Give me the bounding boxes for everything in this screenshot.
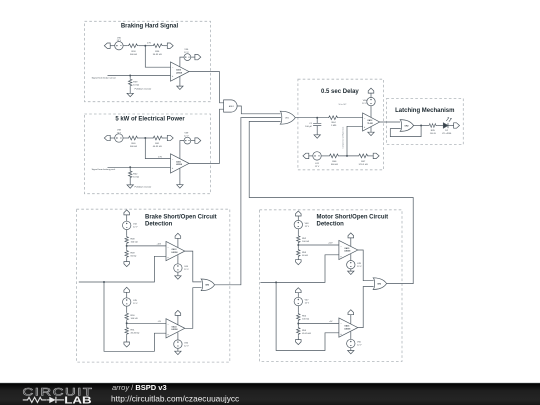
svg-text:+: +: [172, 167, 174, 170]
wire: [369, 155, 373, 157]
svg-text:R49: R49: [131, 253, 136, 255]
wire sensor line: [108, 75, 171, 77]
svg-text:V49: V49: [357, 263, 362, 265]
svg-text:AND1: AND1: [229, 105, 234, 108]
op-amp power stub: [177, 315, 179, 324]
svg-text:Pulldown resistor: Pulldown resistor: [135, 88, 152, 91]
op-amp neg rail stub: [350, 254, 352, 260]
wire: [448, 125, 454, 127]
resistor R47: [358, 154, 370, 158]
op-amp power stub: [180, 57, 184, 67]
logo diode: [49, 397, 55, 403]
op-amp power stub: [180, 141, 184, 159]
resistor R51: [125, 327, 128, 336]
wire: [297, 257, 299, 260]
svg-text:50 to 94T: 50 to 94T: [339, 103, 348, 106]
svg-text:60 kΩ: 60 kΩ: [131, 256, 137, 258]
svg-text:12 V: 12 V: [362, 103, 367, 105]
junction divider lower: [297, 323, 299, 325]
wire: [126, 335, 128, 342]
wire: [126, 244, 128, 249]
svg-text:LM358: LM358: [344, 251, 350, 253]
wire brake OR to OR1 input2: [241, 117, 281, 119]
svg-text:V50: V50: [357, 342, 362, 344]
wire: [321, 155, 328, 157]
ground: [175, 276, 181, 279]
svg-text:V44: V44: [184, 266, 189, 268]
svg-text:OA16: OA16: [344, 325, 349, 328]
svg-text:V42: V42: [133, 224, 138, 226]
wire: [110, 45, 115, 47]
dashed section boxes: [77, 21, 464, 362]
svg-text:arroy / BSPD v3: arroy / BSPD v3: [112, 383, 167, 392]
svg-text:LM358: LM358: [344, 328, 350, 330]
voltage source V47: [294, 297, 302, 305]
wire: [297, 335, 299, 339]
op-amp neg rail stub: [350, 332, 352, 340]
svg-text:12 V: 12 V: [305, 226, 310, 228]
junction feedback: [420, 125, 422, 127]
or gate OR5: [201, 279, 214, 291]
flag right V+: [195, 138, 201, 143]
op-amp neg rail stub: [177, 255, 179, 264]
voltage source V40: [367, 97, 375, 105]
flag down: [296, 260, 302, 265]
ground: [127, 185, 133, 188]
svg-text:LTL-4266: LTL-4266: [442, 133, 452, 135]
svg-text:Latching Mechanism: Latching Mechanism: [395, 108, 454, 114]
svg-text:V48: V48: [305, 223, 310, 225]
svg-text:R45: R45: [431, 130, 436, 132]
wire: [126, 292, 128, 298]
wire: [340, 155, 358, 157]
svg-text:V38: V38: [117, 130, 122, 132]
flag right V+: [195, 54, 201, 59]
svg-text:12 V: 12 V: [184, 269, 189, 271]
svg-text:12 V: 12 V: [133, 227, 138, 229]
flag right (node): [167, 43, 173, 48]
resistor R53: [297, 249, 300, 258]
svg-text:12 V: 12 V: [184, 52, 189, 54]
svg-text:12 V: 12 V: [133, 303, 138, 305]
svg-text:−: −: [167, 323, 169, 326]
svg-text:R44: R44: [332, 122, 337, 124]
svg-text:−: −: [340, 245, 342, 248]
svg-text:100 kΩ: 100 kΩ: [302, 241, 309, 243]
or gate OR1: [280, 111, 295, 124]
wire output: [414, 125, 429, 127]
svg-text:100 µF: 100 µF: [305, 126, 313, 128]
svg-text:R46: R46: [332, 161, 337, 163]
junction divider: [144, 137, 146, 139]
resistor R41: [152, 136, 164, 140]
op-amp ground stub: [179, 168, 181, 185]
svg-text:V35: V35: [117, 37, 122, 39]
flag up V+: [348, 233, 354, 238]
svg-text:45.45 kΩ: 45.45 kΩ: [131, 333, 140, 335]
svg-text:5 kW of Electrical Power: 5 kW of Electrical Power: [115, 116, 185, 122]
voltage source V42: [123, 221, 131, 229]
svg-text:100 kΩ: 100 kΩ: [131, 318, 138, 320]
wire: [191, 56, 195, 58]
or gate OR6: [373, 278, 386, 290]
wire: [123, 45, 127, 47]
wire: [297, 216, 299, 220]
svg-text:12 V: 12 V: [305, 303, 310, 305]
op-amp OA15: [339, 240, 358, 259]
wire: [191, 140, 195, 142]
ground: [175, 351, 181, 354]
wire: [297, 229, 299, 235]
svg-text:560 kΩ: 560 kΩ: [130, 146, 137, 148]
svg-text:12 V: 12 V: [315, 166, 320, 168]
resistor R54: [297, 313, 300, 322]
resistor R36: [152, 44, 164, 48]
op-amp ground stub: [179, 76, 181, 86]
wire divider to op-amp lower input: [347, 126, 363, 156]
svg-text:R41: R41: [155, 143, 160, 145]
junction divider: [346, 155, 348, 157]
wire: [297, 293, 299, 298]
svg-text:45.45 kΩ: 45.45 kΩ: [302, 333, 311, 335]
flag up rail lower: [296, 288, 302, 293]
flag down: [124, 262, 130, 267]
svg-text:46.33 kΩ: 46.33 kΩ: [153, 146, 162, 148]
svg-text:+5V: +5V: [329, 321, 333, 323]
svg-text:0.5 sec Delay: 0.5 sec Delay: [321, 89, 359, 95]
svg-text:OA15: OA15: [344, 247, 349, 250]
svg-text:R48: R48: [131, 239, 136, 241]
bar background: [0, 383, 540, 405]
svg-text:R55: R55: [302, 330, 307, 332]
wire: [350, 269, 352, 271]
svg-text:V45: V45: [133, 300, 138, 302]
svg-text:60 kΩ: 60 kΩ: [302, 255, 308, 257]
resistor R55: [297, 327, 300, 336]
wire AND1 output: [237, 106, 281, 114]
svg-text:C1: C1: [309, 123, 313, 125]
wire feedback loop: [390, 126, 421, 137]
svg-text:R52: R52: [302, 238, 307, 240]
resistor R34: [127, 44, 139, 48]
svg-text:R47: R47: [361, 161, 366, 163]
wire OA16 output to OR6: [358, 287, 374, 328]
op-amp ground stub: [370, 127, 372, 133]
resistor R42 (pulldown): [129, 170, 132, 179]
svg-text:V41: V41: [315, 163, 320, 165]
svg-text:OR1: OR1: [285, 118, 289, 120]
svg-text:TL081: TL081: [367, 123, 372, 125]
op-amp power stub: [177, 238, 179, 247]
svg-text:−: −: [172, 66, 174, 69]
wire: [139, 45, 152, 47]
svg-text:+5V: +5V: [158, 321, 162, 323]
junction divider lower: [126, 322, 128, 324]
voltage source V36: [184, 54, 191, 61]
svg-text:V47: V47: [305, 300, 310, 302]
svg-text:12 V: 12 V: [357, 345, 362, 347]
resistor R45: [428, 124, 437, 128]
svg-text:560 kΩ: 560 kΩ: [130, 54, 137, 56]
flag up rail lower: [124, 287, 130, 292]
resistor R50: [125, 312, 128, 321]
flag up V+: [348, 310, 354, 315]
svg-text:Pulldown resistor: Pulldown resistor: [135, 185, 152, 188]
wire op-amp output to latch: [380, 121, 401, 123]
junction divider upper: [126, 245, 128, 247]
svg-text:OA14: OA14: [172, 325, 178, 328]
wire: [437, 125, 443, 127]
svg-text:OR5: OR5: [205, 285, 209, 287]
box Latching Mechanism: [387, 99, 464, 145]
junction node 2.9V: [144, 45, 146, 47]
svg-text:D2: D2: [445, 130, 449, 132]
op-amp OA13: [166, 242, 185, 261]
wire: [110, 137, 115, 139]
wire: [126, 321, 128, 327]
voltage source V35: [115, 42, 123, 50]
svg-text:LM358: LM358: [172, 252, 178, 254]
svg-text:Motor Short/Open Circuit: Motor Short/Open Circuit: [317, 215, 389, 221]
wire OA14 output to OR5: [185, 288, 202, 329]
ground: [177, 185, 183, 188]
voltage source V41: [313, 152, 321, 160]
box Motor Short/Open Circuit Detection: [260, 210, 403, 362]
wire: [126, 306, 128, 312]
svg-text:R51: R51: [131, 330, 136, 332]
wire junction to op-amp input: [298, 323, 339, 325]
voltage source V49: [347, 261, 355, 269]
svg-text:OR2: OR2: [405, 125, 409, 127]
svg-text:V36: V36: [184, 49, 189, 51]
wire OR1 output: [295, 117, 327, 119]
svg-text:100 Ω: 100 Ω: [430, 133, 436, 135]
svg-text:12 V: 12 V: [184, 345, 189, 347]
svg-text:Detection: Detection: [317, 221, 345, 227]
svg-text:2.9V: 2.9V: [147, 43, 152, 45]
wire: [129, 167, 131, 185]
wire main sensor line: [79, 256, 166, 282]
svg-text:Brake Short/Open Circuit: Brake Short/Open Circuit: [145, 215, 217, 221]
svg-text:+10V: +10V: [328, 243, 333, 245]
svg-text:OA10: OA10: [176, 69, 181, 72]
svg-text:OR6: OR6: [377, 283, 381, 285]
svg-text:R39: R39: [133, 82, 138, 84]
svg-text:LM358: LM358: [176, 72, 182, 74]
wire: [123, 137, 127, 139]
svg-text:Comparator w/ Hysteresis: Comparator w/ Hysteresis: [342, 127, 345, 149]
junction divider upper: [297, 244, 299, 246]
op-amp neg rail stub: [177, 332, 179, 340]
flag up V+: [368, 88, 374, 93]
op-amp power stub: [370, 105, 372, 117]
capacitor C1: [313, 118, 321, 135]
wire junction to op-amp inverting input: [145, 46, 170, 67]
svg-text:LM358: LM358: [176, 164, 182, 166]
svg-text:http://circuitlab.com/czaecuua: http://circuitlab.com/czaecuuaujycc: [111, 393, 239, 403]
flag down lower: [296, 340, 302, 345]
svg-text:+10V: +10V: [157, 243, 162, 245]
svg-text:−: −: [172, 158, 174, 161]
svg-text:LAB: LAB: [64, 394, 92, 405]
box 0.5 sec Delay: [298, 79, 384, 170]
resistor R52: [297, 235, 300, 244]
flag left (node): [104, 43, 110, 48]
svg-text:576.5 kΩ: 576.5 kΩ: [359, 164, 368, 166]
svg-text:10 kΩ: 10 kΩ: [133, 85, 139, 87]
junction main line: [103, 281, 105, 283]
voltage source V38: [115, 134, 123, 142]
wire: [126, 258, 128, 262]
resistor R46: [328, 154, 340, 158]
flag left (node): [104, 135, 110, 140]
flag right bottom row: [373, 153, 379, 158]
box Braking Hard Signal: [85, 21, 211, 101]
resistor R40: [127, 136, 139, 140]
voltage source V50: [347, 339, 355, 347]
wire: [139, 137, 152, 139]
wire op-amp output to AND1: [189, 72, 224, 103]
wire: [309, 155, 313, 157]
wire: [164, 137, 168, 139]
svg-text:+: +: [172, 75, 174, 78]
wire OR6 output to OR1: [249, 121, 413, 283]
resistor R39 (pulldown): [129, 78, 132, 87]
flag right output: [454, 123, 460, 128]
wire to lower comparator: [104, 282, 166, 351]
logo resistor-diode squiggle: [23, 397, 64, 402]
svg-text:12 V: 12 V: [117, 133, 122, 135]
wire junction to op-amp input: [127, 245, 166, 247]
wire junction to op-amp input: [127, 322, 166, 324]
op-amp power stub: [350, 315, 352, 324]
op-amp OA12: [363, 113, 380, 131]
flag up V+: [175, 310, 181, 315]
svg-text:12 V: 12 V: [184, 135, 189, 137]
wire main sensor line: [260, 255, 339, 283]
svg-text:Signal from battery pack: Signal from battery pack: [92, 168, 116, 171]
op-amp OA14: [166, 319, 185, 338]
svg-text:100 kΩ: 100 kΩ: [302, 319, 309, 321]
flag up rail: [124, 210, 130, 215]
AND gate AND1: [224, 100, 237, 112]
resistor R44: [327, 116, 339, 120]
resistor R49: [125, 250, 128, 259]
svg-text:R53: R53: [302, 252, 307, 254]
wire: [129, 76, 131, 94]
voltage source V46: [174, 340, 182, 348]
svg-text:10 kΩ: 10 kΩ: [133, 177, 139, 179]
ground: [314, 135, 320, 138]
junction pulldown: [129, 166, 131, 168]
wire: [350, 348, 352, 351]
svg-text:Detection: Detection: [145, 221, 173, 227]
wire: [177, 272, 179, 276]
ground: [127, 93, 133, 96]
ground: [348, 351, 354, 354]
voltage source V44: [174, 264, 182, 272]
svg-text:R34: R34: [131, 51, 136, 53]
wire: [297, 306, 299, 313]
flag right (node): [167, 135, 173, 140]
op-amp OA16: [339, 318, 358, 337]
svg-text:Braking Hard Signal: Braking Hard Signal: [121, 24, 179, 30]
LED D2: [443, 123, 448, 128]
flag up V+: [175, 233, 181, 238]
wire junction to op-amp input: [298, 244, 339, 246]
svg-text:−: −: [167, 246, 169, 249]
svg-text:36.33 kΩ: 36.33 kΩ: [153, 54, 162, 56]
wire: [297, 321, 299, 327]
wire op-amp output to AND1: [189, 109, 224, 163]
or gate OR2 latch: [400, 120, 413, 132]
svg-text:R40: R40: [131, 143, 136, 145]
wire: [370, 93, 372, 98]
wire motor OR to OR1 input3: [249, 120, 280, 122]
flag left bottom row: [303, 153, 309, 158]
wire OA15 output to OR6: [358, 250, 374, 281]
op-amp OA10: [171, 62, 190, 81]
voltage source V45: [123, 298, 131, 306]
voltage source V39: [184, 137, 191, 144]
junction pulldown: [129, 75, 131, 77]
LED arrows: [446, 118, 451, 122]
ground: [348, 271, 354, 274]
svg-text:560 kΩ: 560 kΩ: [331, 164, 338, 166]
flag down lower: [124, 342, 130, 347]
flag up rail: [296, 211, 302, 216]
svg-text:V46: V46: [184, 342, 189, 344]
svg-text:1 MΩ: 1 MΩ: [331, 125, 337, 127]
wire: [164, 45, 168, 47]
svg-text:R36: R36: [155, 51, 160, 53]
junction RC node: [316, 117, 318, 119]
svg-text:−: −: [364, 117, 366, 120]
wire: [297, 243, 299, 248]
junction main line: [275, 281, 277, 283]
op-amp power stub: [350, 238, 352, 246]
svg-text:Signal from brake sensor: Signal from brake sensor: [92, 76, 117, 79]
resistor R48: [125, 236, 128, 245]
svg-text:OA12: OA12: [367, 119, 372, 122]
wire OR5 output to OR1: [215, 118, 242, 285]
wire: [126, 215, 128, 221]
svg-text:LM358: LM358: [172, 329, 178, 331]
wire to lower comparator: [276, 282, 339, 350]
ground: [177, 86, 183, 89]
box 5 kW of Electrical Power: [84, 114, 210, 194]
svg-text:V39: V39: [184, 133, 189, 135]
wire OA13 output to OR5: [185, 251, 202, 282]
svg-text:−: −: [340, 322, 342, 325]
svg-text:R50: R50: [131, 315, 136, 317]
box Brake Short/Open Circuit Detection: [77, 209, 230, 362]
svg-text:100 kΩ: 100 kΩ: [131, 242, 138, 244]
svg-text:OA11: OA11: [176, 161, 181, 164]
op-amp OA11: [171, 154, 190, 173]
svg-text:12 V: 12 V: [117, 40, 122, 42]
voltage source V48: [294, 220, 302, 228]
svg-text:+: +: [364, 126, 366, 129]
wire: [339, 117, 363, 119]
wire: [177, 348, 179, 351]
svg-text:R42: R42: [133, 174, 138, 176]
ground: [368, 132, 374, 135]
svg-text:12 V: 12 V: [357, 266, 362, 268]
wire: [126, 230, 128, 236]
wire junction to op-amp inverting input: [145, 138, 170, 159]
svg-text:OA13: OA13: [172, 248, 177, 251]
